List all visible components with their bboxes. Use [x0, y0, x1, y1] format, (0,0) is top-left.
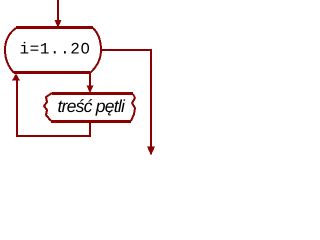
wire: loop exit, right then down: [101, 50, 151, 147]
loop header hexagon bottom edge: [14, 71, 90, 74]
loop header hexagon top edge: [16, 26, 93, 29]
label: tresc petli: [58, 99, 125, 116]
loop header hexagon left edge: [5, 28, 16, 73]
arrowhead: exit arrow pointing down: [147, 147, 155, 156]
loop body block top edge: [52, 92, 133, 95]
loop body block left torn edge: [44, 93, 52, 121]
loop header hexagon right edge: [90, 28, 101, 73]
loop body block right torn edge: [131, 94, 135, 121]
arrowhead: loop-back arrow pointing up: [12, 74, 20, 81]
wire: loop-back from body bottom, left and up: [17, 80, 90, 136]
wire: entry line into loop header: [57, 0, 59, 21]
arrowhead: entry arrow pointing down: [55, 20, 62, 28]
label: i=1..20: [21, 42, 89, 54]
loop body block bottom edge: [51, 120, 131, 123]
arrowhead: into loop body pointing down: [87, 86, 94, 94]
wire: from header down into loop body: [89, 73, 91, 86]
